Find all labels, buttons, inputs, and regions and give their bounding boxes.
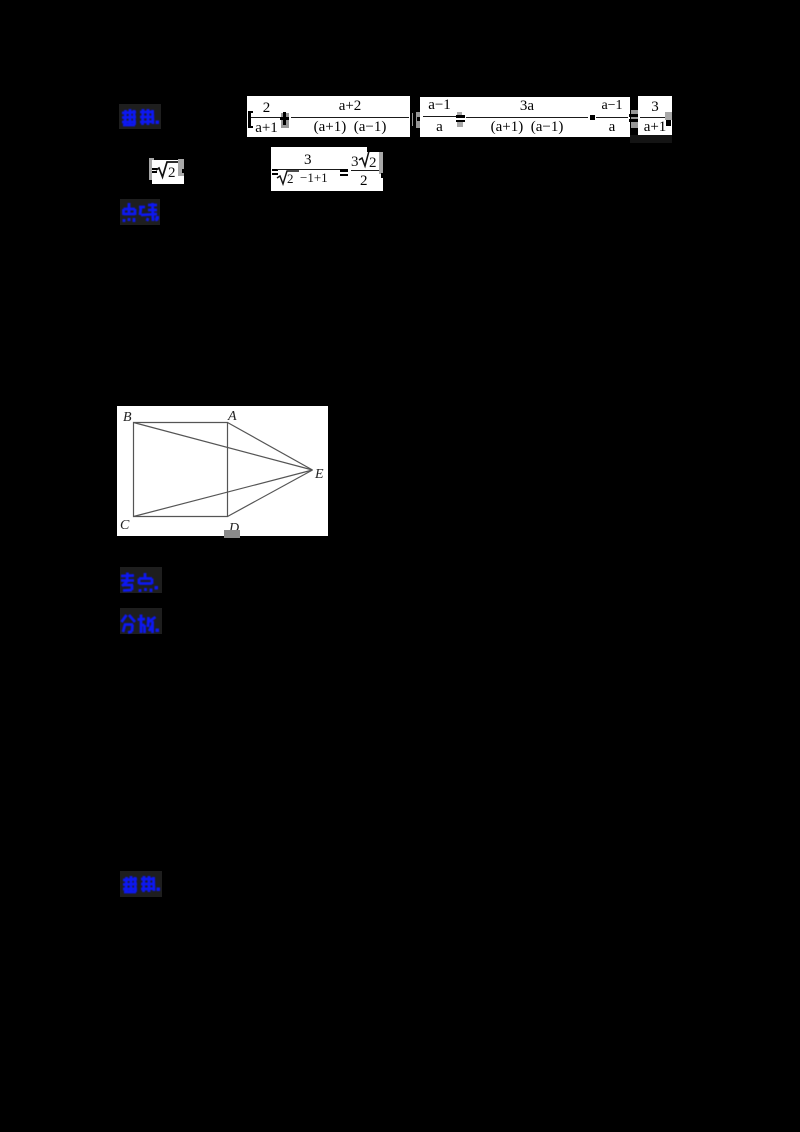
grey handle under figure [224,530,240,538]
big fraction group 3/(sqrt2-1+1) = 3sqrt2/2 [271,147,383,191]
black notch top-right [367,145,384,152]
svg-text:C: C [120,518,130,533]
svg-text:E: E [314,467,324,482]
fraction (a-1)/a (second) [595,97,629,137]
line D-E [228,470,313,517]
operator = on grey block in black gap [631,110,638,128]
fraction 3/(a+1) white box [638,96,672,135]
svg-text:A: A [227,409,237,424]
= [272,169,278,171]
bracket [ [248,111,251,128]
line A-E [228,423,313,471]
blue label "解答：" row1 [119,104,161,129]
blue label "考点：" [120,567,162,593]
fraction (a-1)/a [421,97,458,137]
svg-text:2: 2 [168,165,176,181]
dark sliver under last fraction [630,135,672,143]
operator + [281,113,289,128]
= [340,169,348,172]
svg-text:−1+1: −1+1 [300,170,328,185]
white strip B : (a-1)/a = 3a/((a+1)(a-1)) · (a-1)/a [420,97,630,137]
blue label "点评：" [120,199,160,225]
blue label "解答：" row 5 [120,871,162,897]
3 over sqrt2-1+1 [304,152,312,169]
white strip A : [2/(a+1) + (a+2)/((a+1)(a-1)) [247,96,410,137]
svg-text:2: 2 [287,171,294,186]
line B-E [134,423,313,471]
3sqrt2 over 2 [350,148,382,170]
svg-text:B: B [123,410,132,425]
svg-text:2: 2 [369,155,377,170]
operator · dot [590,115,595,120]
svg-text:3: 3 [351,154,359,170]
sqrt(2) image [149,158,154,180]
operator ]· on grey block in black gap [412,112,420,128]
fraction 2/(a+1) [251,96,282,137]
fraction (a+2)/((a+1)(a-1)) [290,96,410,137]
operator = (on white, grey flecks) [457,112,462,116]
wire rectangle B-A-D-C [134,423,228,517]
fraction 3a/((a+1)(a-1)) [466,96,588,137]
blue label "分析：" [120,608,162,634]
line C-E [134,470,313,517]
